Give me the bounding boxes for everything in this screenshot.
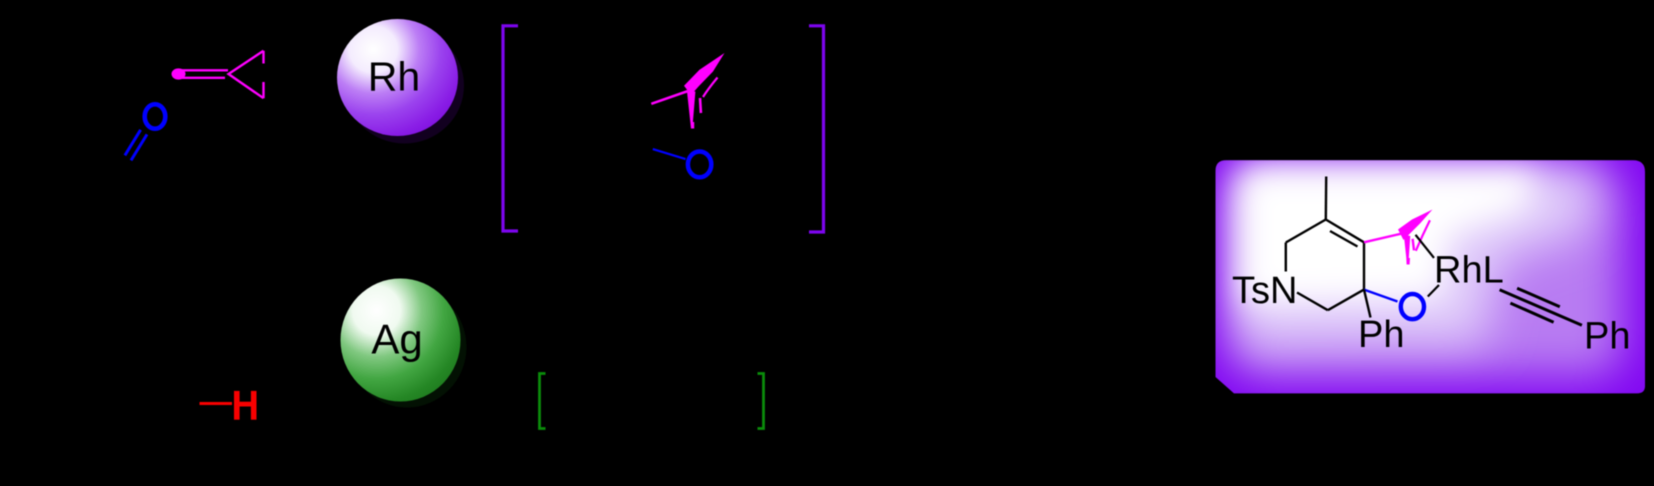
methylenecyclopropane: cyclopropane ring xyxy=(229,51,264,98)
product O xyxy=(1401,294,1424,319)
aldehyde C=O double bond xyxy=(125,130,147,161)
product box white core xyxy=(1240,170,1540,304)
purple left bracket xyxy=(503,26,518,231)
svg-text:TsN: TsN xyxy=(1232,270,1297,312)
product box glow inner mid layer xyxy=(1238,168,1598,346)
carbene wedge bond (bold, up-right) xyxy=(684,53,725,95)
alkyne bond (middle line) xyxy=(1500,290,1582,326)
Rh sphere xyxy=(337,19,458,136)
bond C3 to Ph xyxy=(1364,290,1371,318)
ring bond C4-C3 xyxy=(1363,242,1365,289)
ring bond C3-C2 xyxy=(1328,290,1364,311)
bond O to Rh xyxy=(1428,285,1439,297)
ring bond C5=C4 xyxy=(1326,220,1364,247)
green right bracket xyxy=(758,374,764,429)
carbene bond to ring (down-left) xyxy=(651,91,688,104)
green left bracket xyxy=(540,374,546,429)
svg-text:Ph: Ph xyxy=(1584,316,1630,358)
product carbene vertical wedge xyxy=(1404,235,1411,265)
Ag sphere xyxy=(341,279,461,402)
Ag sphere shadow xyxy=(348,287,467,408)
methylenecyclopropane: C=C double bond xyxy=(181,70,228,78)
bond C3 to O (blue) xyxy=(1364,290,1398,302)
Rh sphere shadow xyxy=(345,28,464,144)
product carbene dash xyxy=(1413,239,1414,251)
svg-text:Ag: Ag xyxy=(371,316,422,363)
svg-text:Rh: Rh xyxy=(368,54,420,100)
product carbene curved line xyxy=(1416,220,1430,251)
alkyne bond (lower line) xyxy=(1510,303,1553,322)
carbene vertical wedge (down) xyxy=(687,92,695,129)
methylenecyclopropane: terminal blob xyxy=(172,68,186,79)
ring bond N-C6 xyxy=(1285,243,1287,272)
svg-text:RhL: RhL xyxy=(1434,250,1504,292)
alkyne bond (upper line) xyxy=(1517,288,1560,307)
ring bond C6-C5 xyxy=(1286,220,1326,243)
bond carbene to Rh xyxy=(1416,235,1435,258)
methyl bond xyxy=(1325,177,1328,220)
carbene small dash xyxy=(699,98,703,113)
aldehyde O xyxy=(145,104,166,128)
product highlight box xyxy=(1216,160,1646,393)
ether C-O bond (blue) xyxy=(653,149,686,159)
ether O xyxy=(688,152,711,178)
purple right bracket xyxy=(809,26,824,232)
svg-text:Ph: Ph xyxy=(1358,314,1404,356)
product carbene wedge xyxy=(1398,210,1433,241)
ring bond C2-N xyxy=(1297,293,1328,311)
bond C4 to carbene (magenta) xyxy=(1364,234,1402,243)
red H letter xyxy=(234,391,257,420)
product box glow outer mid layer xyxy=(1232,170,1622,376)
carbene curved line xyxy=(703,78,718,98)
red H-migration: bond xyxy=(200,402,233,405)
